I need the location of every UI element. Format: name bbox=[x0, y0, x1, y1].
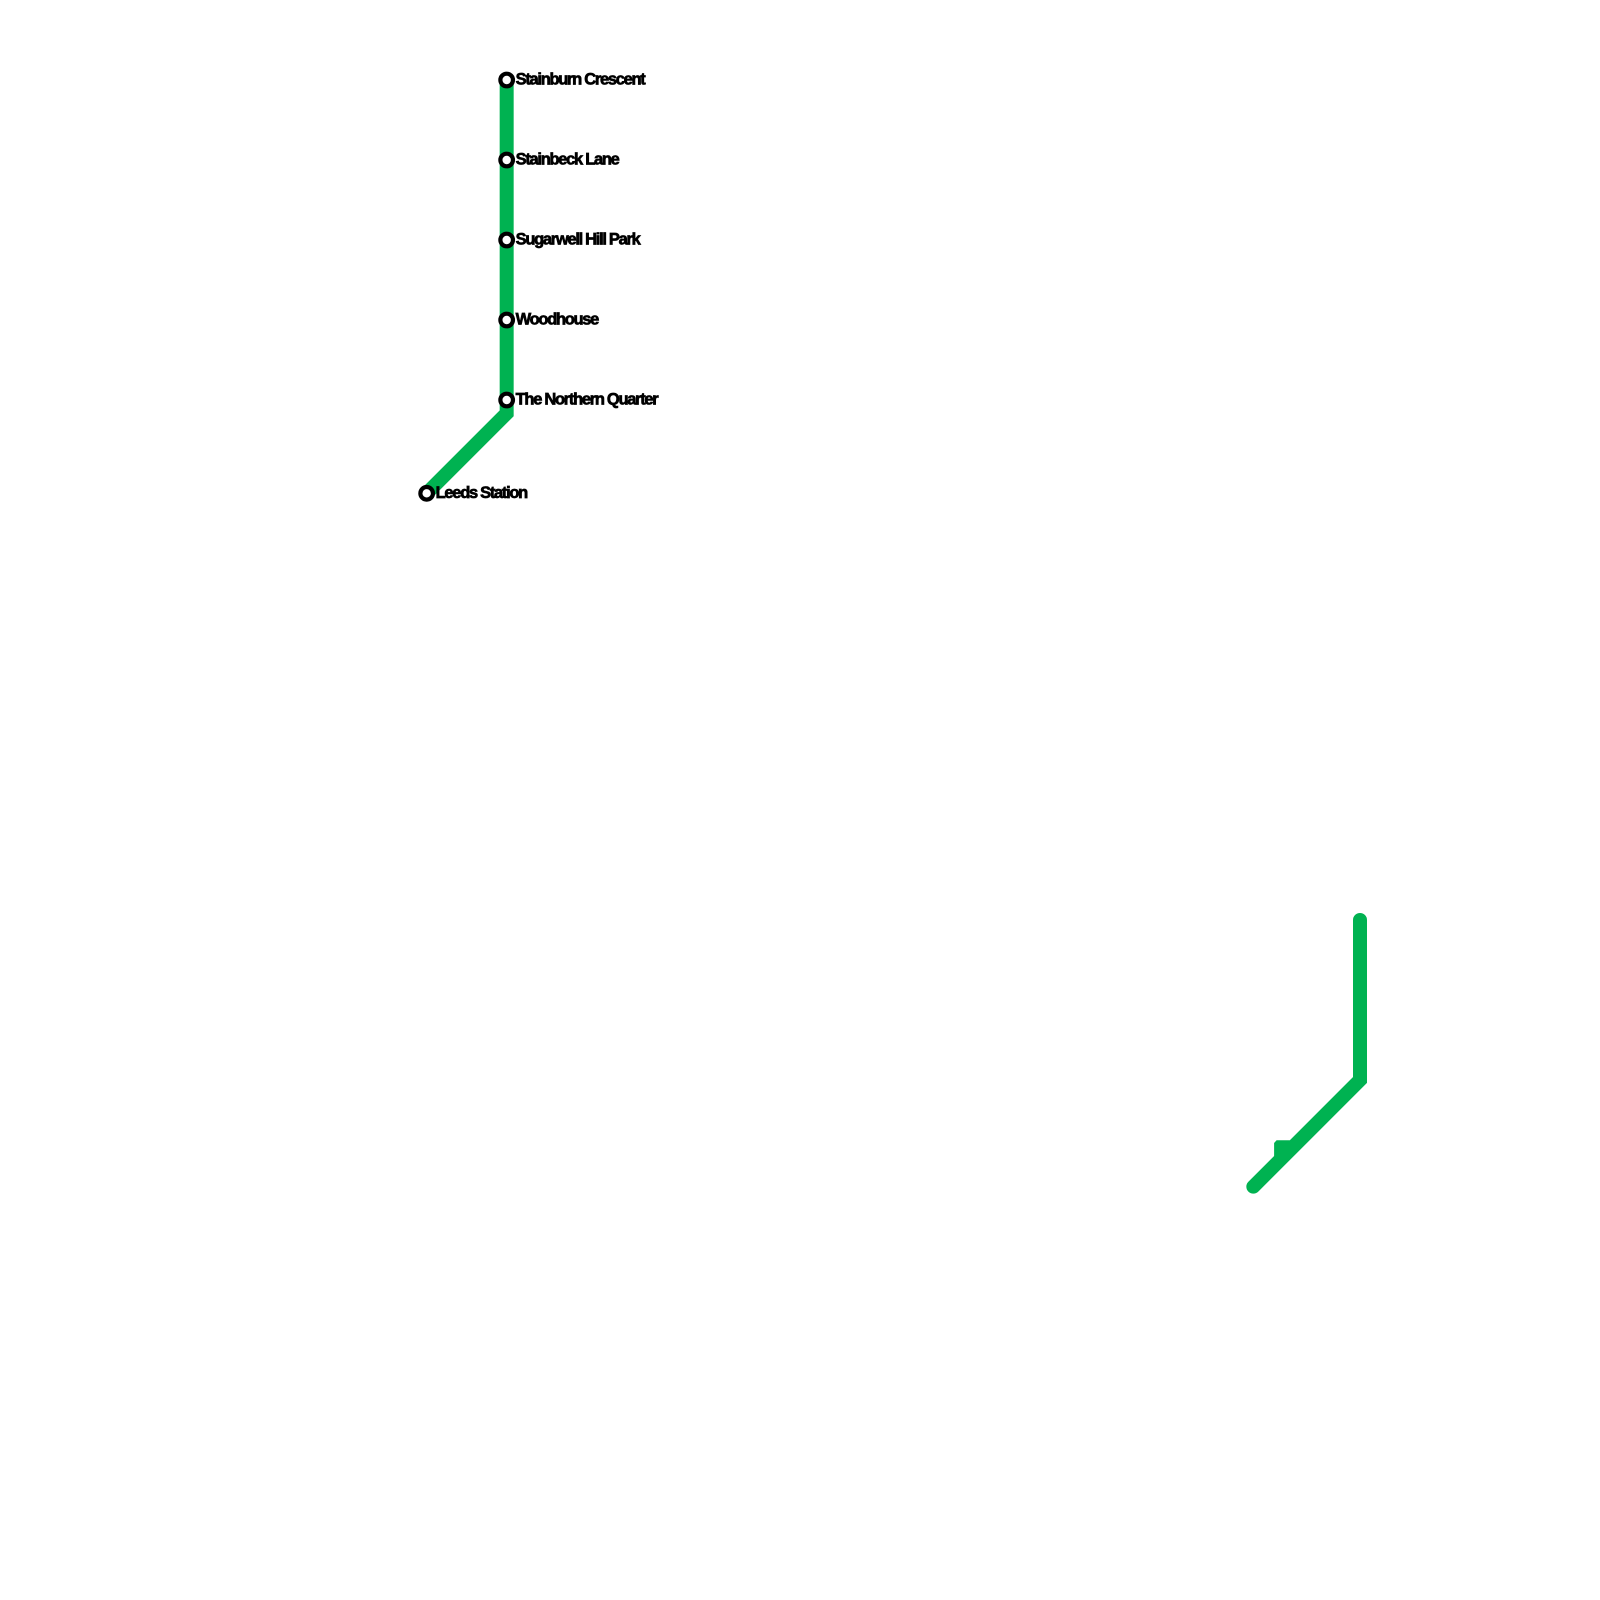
station marker Sugarwell Hill Park bbox=[500, 234, 513, 247]
green metro line 1: Stainburn Crescent to Leeds Station bbox=[427, 80, 507, 493]
green line 2 spur notch bbox=[1274, 1140, 1290, 1160]
svg-text:Stainbeck Lane: Stainbeck Lane bbox=[516, 151, 620, 169]
station marker The Northern Quarter bbox=[500, 394, 513, 407]
station marker Leeds Station bbox=[420, 487, 433, 500]
station marker Stainburn Crescent bbox=[500, 74, 513, 87]
station marker Woodhouse bbox=[500, 314, 513, 327]
green metro line 2 (bottom right, unlabelled) bbox=[1253, 920, 1360, 1187]
svg-text:Leeds Station: Leeds Station bbox=[436, 484, 529, 502]
svg-text:Stainburn Crescent: Stainburn Crescent bbox=[516, 71, 647, 89]
svg-text:Sugarwell Hill Park: Sugarwell Hill Park bbox=[516, 231, 642, 249]
svg-text:Woodhouse: Woodhouse bbox=[516, 311, 600, 329]
svg-text:The Northern Quarter: The Northern Quarter bbox=[516, 391, 660, 409]
station marker Stainbeck Lane bbox=[500, 154, 513, 167]
